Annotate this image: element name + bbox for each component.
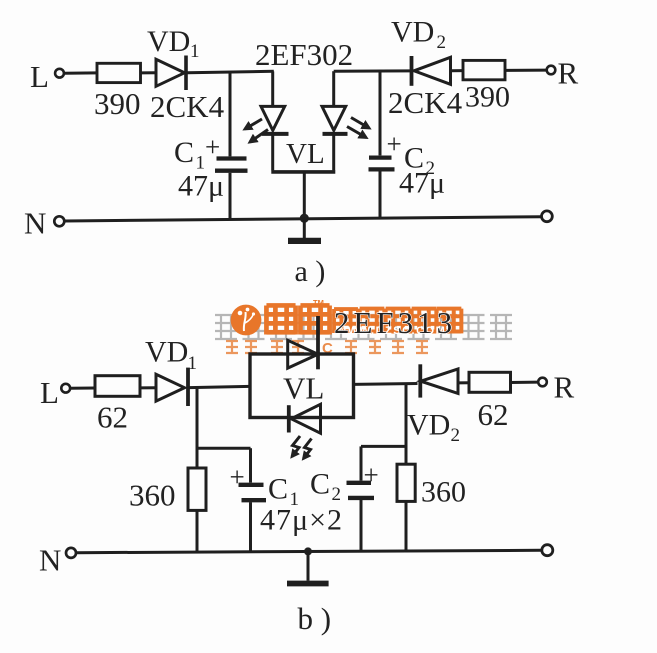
terminal right (b) — [542, 545, 553, 556]
svg-text:VL: VL — [283, 371, 324, 406]
resistor 62 left (b) — [95, 376, 140, 397]
svg-text:2CK4: 2CK4 — [150, 89, 225, 124]
diode VD1 (a) — [156, 59, 185, 86]
svg-text:390: 390 — [94, 86, 141, 121]
resistor 390 right (a) — [463, 60, 505, 79]
VL box (b) — [250, 354, 354, 418]
svg-text:62: 62 — [478, 397, 509, 432]
svg-text:C: C — [174, 136, 194, 169]
N bus wire (b) — [76, 550, 541, 552]
terminal N left (b) — [66, 548, 76, 558]
diode VD2 (b) — [418, 364, 422, 397]
capacitor C1 (b) — [239, 483, 264, 487]
junction dot ground (b) — [304, 547, 312, 555]
vertical from VD1 junction (b) — [196, 388, 199, 469]
resistor 62 right (b) — [469, 372, 511, 392]
svg-text:N: N — [24, 206, 46, 241]
CIRCUIT B — [39, 305, 575, 636]
svg-text:360: 360 — [421, 476, 466, 509]
wire VD2 to R2 (b) — [458, 381, 469, 384]
terminal L (a) — [55, 69, 64, 78]
capacitor C1 (a) — [229, 72, 232, 156]
terminal R (b) — [538, 378, 547, 387]
vertical from VD2 junction (b) — [405, 384, 408, 465]
wire L to R1 (b) — [70, 387, 95, 390]
ground (b) — [307, 551, 310, 580]
svg-text:VD: VD — [407, 409, 450, 442]
resistor 360 left (b) — [188, 468, 206, 510]
N bus wire (a) — [65, 217, 542, 221]
wire VD1 to LED1 node — [188, 71, 274, 73]
diode VD2 (a) — [410, 56, 414, 86]
svg-text:+: + — [387, 129, 402, 159]
svg-text:1: 1 — [188, 353, 198, 374]
resistor 390 left (a) — [97, 63, 141, 82]
wire LED2 node to VD2 — [334, 69, 412, 72]
resistor 360 right (b) — [397, 464, 415, 501]
top diode of VL (b) — [288, 340, 318, 368]
svg-text:2EF302: 2EF302 — [255, 37, 353, 72]
svg-text:N: N — [39, 543, 61, 578]
svg-text:L: L — [40, 375, 59, 410]
gray company watermark text — [215, 315, 512, 339]
svg-text:VD: VD — [145, 336, 188, 369]
svg-text:R: R — [554, 370, 575, 405]
terminal L (b) — [61, 384, 70, 393]
svg-text:L: L — [30, 59, 49, 94]
wire R1 to VD1 — [141, 71, 157, 74]
LED2 emission arrows — [351, 118, 369, 129]
svg-text:VL: VL — [286, 138, 325, 170]
svg-text:C: C — [310, 468, 330, 501]
svg-text:2: 2 — [451, 425, 461, 446]
LED1 emission arrows — [245, 119, 262, 129]
svg-text:+: + — [230, 462, 245, 492]
svg-text:390: 390 — [465, 81, 510, 114]
terminal R (a) — [547, 66, 556, 75]
svg-text:C: C — [268, 473, 288, 506]
svg-text:2: 2 — [332, 484, 342, 505]
watermark logo circle — [231, 305, 262, 336]
svg-text:47μ×2: 47μ×2 — [260, 504, 343, 537]
CIRCUIT A — [24, 16, 579, 289]
svg-text:2: 2 — [437, 32, 447, 53]
svg-text:VD: VD — [147, 25, 190, 58]
svg-text:47μ: 47μ — [399, 167, 445, 200]
wire L to R1 — [64, 71, 97, 74]
bottom LED of VL (b) — [291, 404, 320, 433]
svg-text:2EF313: 2EF313 — [334, 305, 456, 340]
svg-text:360: 360 — [129, 478, 176, 513]
watermark big orange characters — [266, 305, 461, 334]
capacitor C2 (a) — [379, 71, 382, 155]
svg-text:47μ: 47μ — [178, 170, 224, 203]
capacitor C2 (b) — [347, 481, 372, 485]
wire VL box to VD2 (b) — [354, 382, 418, 386]
wire VD2 to R2 — [451, 69, 464, 72]
watermark bottom orange row — [226, 341, 428, 353]
svg-text:+: + — [364, 460, 379, 490]
branch wire to C1 (b) — [197, 447, 251, 450]
wire R1 to VD1 (b) — [140, 386, 156, 389]
LED1 of VL (a) — [271, 71, 274, 106]
diode VD1 (b) — [156, 374, 185, 401]
wire R2 to R terminal — [505, 69, 547, 72]
svg-text:+: + — [205, 132, 220, 162]
svg-text:R: R — [558, 56, 579, 91]
ground (a) — [303, 218, 306, 238]
svg-text:b ): b ) — [298, 601, 332, 636]
wire VD1 to VL box — [190, 386, 251, 387]
LED emission bolts (b) — [292, 436, 300, 457]
LED2 of VL (a) — [332, 71, 335, 106]
svg-text:1: 1 — [190, 41, 200, 62]
wire R2 to R terminal (b) — [511, 381, 539, 384]
svg-text:62: 62 — [97, 400, 128, 435]
terminal N left (a) — [54, 216, 64, 226]
junction dot (a) — [300, 214, 309, 223]
svg-text:VD: VD — [391, 16, 434, 49]
terminal right (a) — [542, 211, 553, 222]
svg-text:2CK4: 2CK4 — [388, 85, 463, 120]
VL common bracket (a) — [271, 134, 274, 171]
branch wire to C2 (b) — [361, 445, 406, 448]
svg-text:a ): a ) — [295, 255, 326, 288]
